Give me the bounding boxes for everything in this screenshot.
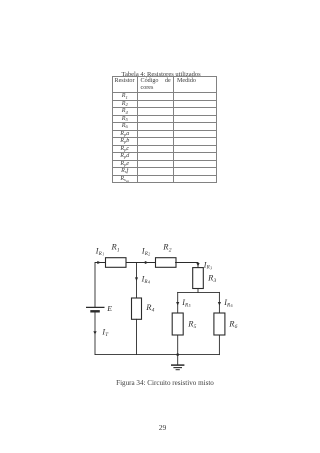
current arrow I_T xyxy=(93,328,109,338)
resistor R5 xyxy=(172,313,196,335)
svg-text:4: 4 xyxy=(148,281,150,285)
battery E xyxy=(86,304,112,313)
current arrow I_R6 xyxy=(218,298,233,308)
resistor R1 xyxy=(106,242,127,268)
svg-text:4: 4 xyxy=(152,307,155,314)
current arrow I_R3 xyxy=(196,260,212,270)
wire R2 to top-right corner xyxy=(176,263,199,268)
resistor R3 xyxy=(193,268,217,289)
current arrow I_R4 xyxy=(135,275,150,285)
svg-text:6: 6 xyxy=(235,324,238,330)
svg-text:2: 2 xyxy=(148,253,150,257)
wire R4 bottom to bottom rail xyxy=(136,319,138,354)
svg-text:1: 1 xyxy=(102,253,104,257)
svg-text:1: 1 xyxy=(117,247,120,253)
junction ground node xyxy=(176,353,179,356)
wire middle rail to R6 xyxy=(218,292,220,313)
wire middle rail to R5 xyxy=(177,292,179,313)
svg-text:T: T xyxy=(105,332,109,338)
wire R3 bottom to middle rail xyxy=(197,289,199,293)
current arrow I_R5 xyxy=(176,298,191,308)
svg-text:E: E xyxy=(106,304,112,313)
ground xyxy=(171,355,184,370)
wire R1 to R2 through node xyxy=(126,262,156,264)
svg-text:5: 5 xyxy=(194,324,197,330)
current arrow I_R1 xyxy=(95,247,104,265)
current arrow I_R2 xyxy=(141,247,150,265)
wire bottom rail xyxy=(95,354,219,356)
wire battery negative to bottom rail xyxy=(94,312,96,355)
resistor R2 xyxy=(156,242,177,268)
svg-text:5: 5 xyxy=(189,304,191,308)
svg-text:3: 3 xyxy=(210,266,212,270)
svg-text:2: 2 xyxy=(169,247,172,253)
resistor R4 xyxy=(132,298,155,319)
wire node to R4 xyxy=(136,263,138,299)
wire middle rail xyxy=(178,291,220,293)
wire battery positive to R1 (top-left corner) xyxy=(95,263,106,307)
svg-text:6: 6 xyxy=(231,304,233,308)
svg-text:3: 3 xyxy=(213,278,217,284)
resistor R6 xyxy=(214,313,238,335)
wire R5 bottom to ground node xyxy=(177,335,179,355)
wire R6 bottom to bottom rail xyxy=(218,335,220,355)
